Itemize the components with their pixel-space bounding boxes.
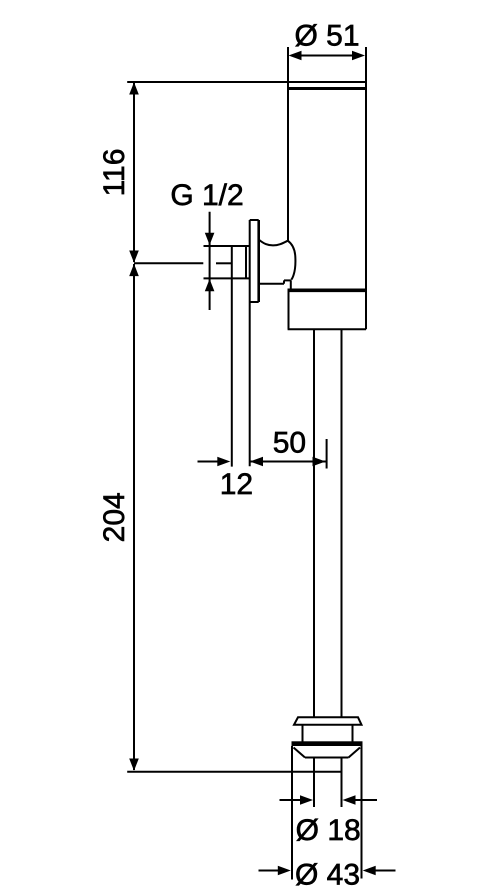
pipe right line [341,329,343,717]
dim 116 line [133,83,135,262]
dim D18 left arrow [280,799,304,801]
box left edge [288,290,290,329]
outer body left line [291,746,293,880]
collar rect right [352,725,354,742]
G 1/2 arrow stem [209,212,211,310]
svg-text:116: 116 [98,149,131,197]
nipple inner line [245,246,247,278]
svg-text:50: 50 [273,427,306,460]
cylinder top band [288,87,366,90]
svg-text:204: 204 [98,492,131,542]
flange right edge [257,220,260,302]
cylinder top edge + 116 extension line [127,81,366,83]
bevel left [294,748,306,758]
svg-text:Ø 51: Ø 51 [294,20,359,53]
dim D18 right arrow [353,799,377,801]
pipe centerline tick [326,439,328,469]
box bottom edge [288,328,366,330]
svg-text:Ø 43: Ø 43 [295,859,360,890]
flange top edge [250,219,259,221]
nipple left cap + 12 extension line [231,246,233,467]
box top thick edge [288,288,367,292]
pipe extension left D18 [313,758,315,808]
bevel inner line [305,757,349,759]
valve body bottom edge [259,283,284,285]
valve body saddle curve [259,240,288,246]
svg-text:Ø 18: Ø 18 [296,814,361,847]
valve body bulge [288,241,296,280]
black seal band [292,741,363,746]
valve body ledge [284,279,291,281]
dim line D51 [291,55,363,57]
bottom reference line 204 [127,771,341,773]
svg-text:12: 12 [220,468,253,501]
pipe extension right D18 [341,758,343,808]
flange bottom edge [250,301,259,303]
svg-text:G 1/2: G 1/2 [170,179,243,212]
outer body right line [361,746,363,879]
bevel right [349,748,361,758]
dim 204 line [133,264,135,770]
valve body right vertical [290,280,292,289]
dim 12 arrow [198,461,222,463]
cylinder right side + extension [365,47,367,329]
pipe left line [313,329,315,717]
cylinder left side + extension [287,47,289,241]
nipple bottom edge [204,277,250,279]
valve body step [283,280,285,283]
collar rect left [302,725,304,742]
dim 50 line [250,461,327,463]
dim D43 left arrow [259,870,281,872]
dim D43 right arrow [374,870,396,872]
washer trapezoid [294,717,362,725]
nipple top edge [204,245,250,247]
flange left edge + 50 extension line [249,220,251,466]
fitting centerline [134,262,203,264]
